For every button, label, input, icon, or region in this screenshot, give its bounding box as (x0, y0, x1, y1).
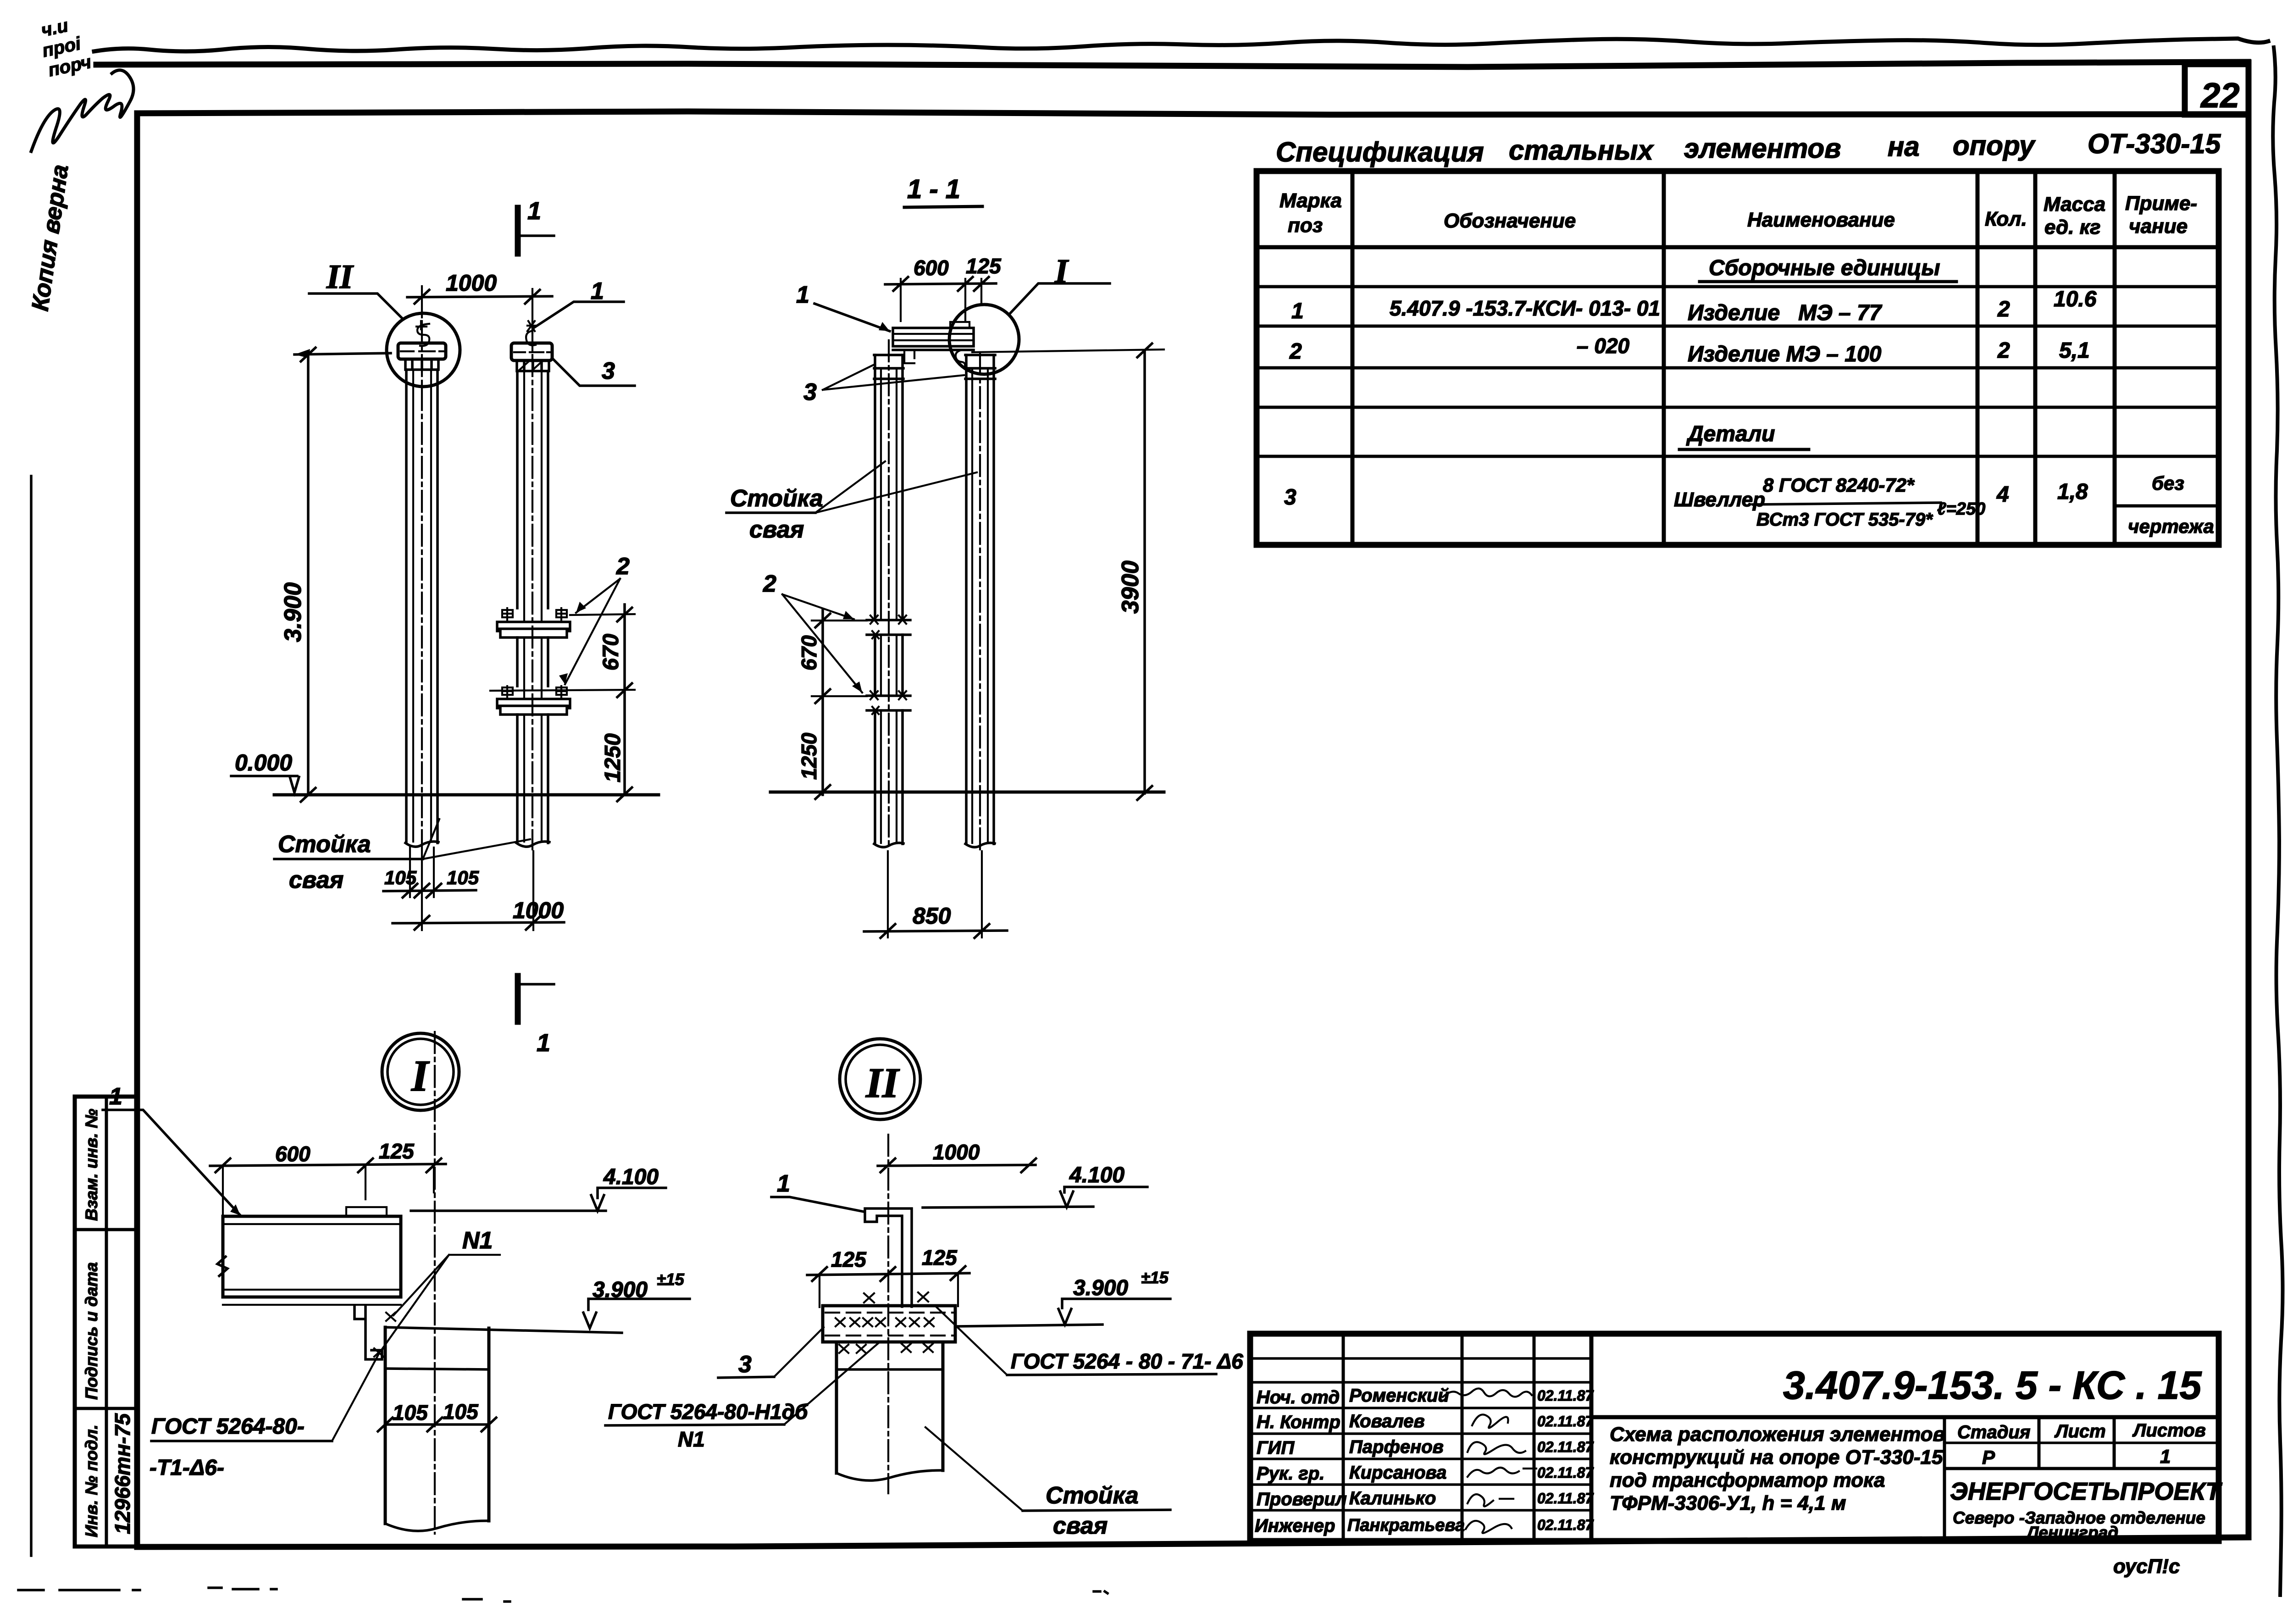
стойка свая underline (274, 858, 423, 860)
torn paper right edge (2273, 47, 2282, 1595)
title block divider sig/date (1533, 1334, 1536, 1541)
pile post 1 cap inner line (401, 350, 445, 352)
svg-text:3: 3 (803, 379, 817, 405)
left margin edge line (30, 476, 33, 1556)
svg-text:конструкций на опоре ОТ-330-15: конструкций на опоре ОТ-330-15 (1610, 1446, 1943, 1469)
section mark 1 bottom (515, 976, 521, 1022)
sect dim 850 ticks (881, 924, 989, 938)
leader 2 arrowheads (559, 602, 586, 684)
svg-text:Стойка: Стойка (278, 831, 371, 858)
title block divider roles/names (1342, 1334, 1345, 1541)
detail II гост Н1дб leader (784, 1343, 879, 1424)
svg-text:3900: 3900 (1117, 560, 1144, 614)
svg-text:1: 1 (2160, 1446, 2171, 1467)
dim 105 105 ticks (403, 884, 441, 898)
detail II стойка underline (1023, 1510, 1170, 1511)
detail II post sides (836, 1342, 943, 1473)
pile post 2 shaft inner lines (524, 371, 542, 842)
pile post 2 shaft edges (517, 371, 548, 843)
svg-text:Стойка: Стойка (730, 485, 823, 512)
title stage col dividers (2039, 1417, 2114, 1469)
svg-text:105: 105 (443, 1400, 479, 1424)
detail II plate weld row below (839, 1344, 933, 1353)
detail II post centerline (887, 1135, 889, 1493)
svg-text:1000: 1000 (446, 270, 497, 296)
detail I beam left break (217, 1257, 227, 1276)
svg-text:ед. кг: ед. кг (2044, 216, 2100, 238)
svg-text:Изделие МЭ – 77: Изделие МЭ – 77 (1688, 301, 1883, 325)
torn paper top edge (94, 39, 2268, 51)
spec table outer box (1257, 171, 2219, 545)
detail II leader 3 underline (718, 1377, 774, 1378)
detail I channel 3 profile (354, 1305, 382, 1359)
pile post 2 cap plate (511, 343, 552, 360)
sect dim 850 extensions (888, 851, 982, 937)
svg-text:22: 22 (2200, 76, 2240, 115)
detail II level 3.900 arrow (1058, 1309, 1071, 1325)
detail II dim 125 ticks (812, 1266, 965, 1281)
section title underline (904, 206, 982, 207)
svg-text:II: II (326, 258, 354, 296)
dim 3900 ticks (301, 348, 316, 802)
detail I post centerline (434, 1032, 436, 1534)
svg-text:02.11.87: 02.11.87 (1537, 1517, 1594, 1533)
detail II dim 1000 line (878, 1165, 1036, 1166)
margin stamp row divider 1 (75, 1228, 137, 1231)
svg-text:Стойка: Стойка (1046, 1482, 1139, 1509)
svg-text:-Т1-Δ6-: -Т1-Δ6- (150, 1456, 224, 1480)
detail II dim 125 extensions (820, 1274, 958, 1307)
clamp 2 body (497, 699, 570, 715)
svg-text:ВСт3 ГОСТ 535-79*: ВСт3 ГОСТ 535-79* (1756, 510, 1933, 530)
detail I weld marks (374, 1313, 395, 1357)
detail II leader 3 line (774, 1327, 824, 1377)
pile post 1 shaft edges (406, 370, 438, 843)
svg-text:Лист: Лист (2054, 1421, 2106, 1441)
dim 1000 bottom line (393, 922, 564, 923)
title block divider left/right (1590, 1334, 1594, 1541)
svg-text:670: 670 (599, 634, 623, 671)
svg-text:±15: ±15 (1141, 1268, 1169, 1287)
svg-text:Обозначение: Обозначение (1444, 210, 1576, 232)
detail I beam top tab (346, 1207, 387, 1216)
svg-text:1: 1 (796, 282, 809, 308)
dim 670-1250 line (623, 604, 626, 795)
svg-text:Листов: Листов (2132, 1420, 2206, 1441)
svg-text:02.11.87: 02.11.87 (1537, 1439, 1594, 1455)
beam inner lines (893, 334, 974, 340)
detail I dim extensions (223, 1165, 434, 1214)
title block row lines (1250, 1358, 1591, 1510)
svg-text:600: 600 (275, 1142, 310, 1166)
sect dim 3900 vertical (1143, 350, 1146, 793)
svg-text:I: I (1054, 253, 1069, 290)
margin stamp row divider 2 (75, 1407, 137, 1410)
clamp 1 extension line (570, 614, 635, 615)
sect post B bottom break (965, 843, 995, 847)
svg-text:II: II (865, 1059, 900, 1106)
svg-text:ОТ-330-15: ОТ-330-15 (2088, 128, 2221, 159)
svg-text:02.11.87: 02.11.87 (1537, 1387, 1594, 1404)
svg-text:2: 2 (763, 571, 776, 597)
detail II гост 71-Δ6 leader (936, 1307, 1007, 1375)
sect dim 3900 ticks (1137, 344, 1152, 800)
svg-text:Изделие МЭ – 100: Изделие МЭ – 100 (1688, 342, 1882, 366)
detail I N1 leader (381, 1255, 500, 1351)
sect post B centerline (979, 353, 981, 849)
spec col divider наименование (1976, 171, 1980, 545)
svg-text:опору: опору (1953, 130, 2036, 161)
svg-text:3: 3 (602, 358, 615, 384)
svg-text:ТФРМ-3306-У1, h = 4,1 м: ТФРМ-3306-У1, h = 4,1 м (1610, 1492, 1846, 1514)
svg-text:4.100: 4.100 (1069, 1163, 1124, 1187)
spec col divider кол (2033, 171, 2038, 545)
svg-text:свая: свая (289, 867, 343, 893)
svg-text:02.11.87: 02.11.87 (1537, 1413, 1594, 1430)
title sig кирсанова (1468, 1468, 1536, 1477)
svg-text:Приме-: Приме- (2125, 192, 2197, 215)
svg-text:105: 105 (393, 1401, 428, 1424)
clamp 1 bolt left (502, 608, 513, 622)
drawing frame left (134, 113, 140, 1547)
svg-text:2: 2 (1997, 338, 2010, 363)
spec header bottom line (1257, 245, 2219, 249)
detail I level 3.900 underline (588, 1299, 690, 1310)
spec row line 5 (1257, 455, 2219, 458)
detail I level 4.100 underline (598, 1188, 666, 1198)
svg-text:Р: Р (1982, 1447, 1995, 1468)
svg-text:8 ГОСТ 8240-72*: 8 ГОСТ 8240-72* (1763, 474, 1915, 496)
spec col divider масса (2113, 171, 2117, 545)
svg-text:стальных: стальных (1509, 135, 1654, 166)
dim 670 ticks (617, 608, 632, 801)
title block code divider (1591, 1415, 2219, 1419)
svg-text:Кирсанова: Кирсанова (1349, 1463, 1446, 1483)
sect dim 3900 extension (972, 349, 1164, 352)
spec примечание cell split (2115, 504, 2219, 508)
pile post 1 bottom break (405, 842, 438, 847)
clamp 2 bolt left (502, 686, 513, 699)
spec table title (1276, 128, 2221, 167)
svg-text:125: 125 (379, 1139, 415, 1163)
svg-text:2: 2 (1997, 297, 2010, 321)
dim 3900 vertical line (307, 355, 310, 795)
title sig роменский (1443, 1388, 1532, 1397)
svg-text:I: I (411, 1051, 430, 1100)
underline детали (1679, 448, 1809, 451)
svg-text:850: 850 (913, 903, 951, 929)
svg-text:без: без (2152, 472, 2184, 494)
sect post A bottom break (874, 843, 903, 847)
detail I level 4.100 arrow (591, 1195, 604, 1211)
dim 1000 bottom extensions (422, 851, 533, 930)
detail I dim ticks (216, 1158, 441, 1172)
clamp 1 body (497, 622, 570, 637)
detail I dim line (210, 1164, 446, 1166)
detail I callout leader (1009, 283, 1110, 315)
margin stamp table column divider (105, 1097, 108, 1546)
svg-text:Наименование: Наименование (1747, 209, 1895, 231)
detail II leader 1 line (771, 1197, 864, 1212)
pile post 1 collar (405, 359, 438, 370)
svg-text:N1: N1 (678, 1427, 705, 1451)
spec row line 3 (1257, 366, 2219, 370)
pile post 1 centerline (421, 321, 423, 849)
svg-text:Детали: Детали (1686, 422, 1775, 446)
svg-text:1000: 1000 (513, 898, 564, 923)
detail II post bottom break (836, 1470, 943, 1480)
sect post A centerline (888, 340, 890, 849)
title sig парфенов (1468, 1442, 1525, 1454)
detail II level 3.900 line (957, 1325, 1102, 1326)
dim 1000 top extension from post1 (421, 286, 423, 317)
detail I post dim line (385, 1423, 489, 1426)
svg-text:Стадия: Стадия (1957, 1422, 2030, 1442)
detail I level 3.900 arrow (583, 1313, 596, 1328)
leader 2 lines (565, 579, 620, 684)
svg-text:1: 1 (527, 197, 541, 225)
svg-text:3: 3 (1284, 485, 1296, 510)
svg-text:Ленинград: Ленинград (2026, 1523, 2118, 1542)
pile post 2 bottom break (516, 842, 549, 847)
verification signature (31, 70, 133, 151)
svg-text:ГИП: ГИП (1257, 1438, 1295, 1458)
sect dim 850 line (864, 931, 1007, 931)
svg-text:3.900: 3.900 (1073, 1276, 1128, 1300)
svg-text:Калинько: Калинько (1349, 1488, 1436, 1508)
svg-text:±15: ±15 (657, 1270, 685, 1289)
detail II гост Н1дб underline (605, 1424, 784, 1425)
bottom small specks (463, 1591, 1108, 1602)
svg-text:600: 600 (914, 256, 949, 280)
svg-text:1250: 1250 (601, 733, 625, 782)
svg-text:Проверил: Проверил (1257, 1489, 1347, 1509)
dim 1000 bottom ticks (415, 916, 541, 930)
torn corner notes top-left (36, 12, 93, 81)
svg-text:Взам. инв. №: Взам. инв. № (82, 1109, 101, 1221)
leader 3 line (553, 359, 635, 386)
title sig калинько (1468, 1494, 1513, 1506)
svg-text:1: 1 (109, 1083, 122, 1110)
underline сборочные единицы (1700, 280, 1956, 283)
detail II top plate (823, 1306, 955, 1342)
svg-text:125: 125 (922, 1246, 958, 1269)
стойка свая leaders (423, 819, 530, 859)
level 0.000 underline (231, 775, 297, 777)
level 0.000 arrow (290, 777, 299, 793)
detail I level 4.100 line (411, 1209, 606, 1212)
sect post A shaft edges (875, 355, 903, 844)
sect dim ticks left (815, 614, 830, 799)
detail II post inner line (836, 1368, 943, 1371)
svg-text:свая: свая (749, 516, 804, 543)
svg-text:Роменский: Роменский (1349, 1386, 1449, 1406)
pile post 1 shaft inner lines (413, 370, 431, 842)
beam top tab (950, 322, 969, 328)
bracket 3 left (904, 350, 914, 363)
sect ground line (770, 791, 1164, 794)
clamp 2 extension line (490, 690, 635, 691)
pile post 2 collar hatch (519, 361, 542, 371)
svg-text:ЭНЕРГОСЕТЬПРОЕКТ: ЭНЕРГОСЕТЬПРОЕКТ (1950, 1478, 2222, 1505)
svg-text:Инженер: Инженер (1255, 1516, 1335, 1536)
sect dim 670-1250 vertical (821, 610, 824, 795)
spec row line 4 (1257, 406, 2219, 409)
margin stamp table box (75, 1097, 137, 1546)
svg-text:1 - 1: 1 - 1 (907, 174, 960, 204)
svg-text:1: 1 (1291, 299, 1304, 323)
svg-text:чание: чание (2129, 215, 2188, 238)
detail I post bottom break (385, 1521, 489, 1531)
detail II dim 125 line (807, 1273, 969, 1275)
title stage table divider (1943, 1417, 1946, 1541)
title sig панкратьева (1466, 1521, 1512, 1533)
svg-text:Панкратьева: Панкратьева (1347, 1516, 1465, 1535)
detail II level 4.100 underline (1064, 1187, 1147, 1192)
svg-text:10.6: 10.6 (2054, 287, 2097, 311)
svg-text:Н. Контр: Н. Контр (1257, 1412, 1340, 1432)
svg-text:1250: 1250 (797, 732, 821, 780)
svg-text:3.900: 3.900 (280, 582, 306, 642)
svg-text:3: 3 (738, 1351, 752, 1378)
svg-text:Кол.: Кол. (1985, 208, 2027, 230)
svg-text:5,1: 5,1 (2059, 338, 2090, 363)
detail II callout leader (309, 294, 403, 319)
svg-text:2: 2 (616, 553, 630, 580)
sect post A clamp marks upper (867, 620, 910, 635)
svg-text:105: 105 (384, 867, 417, 888)
beam МЭ-77 top member (893, 328, 974, 346)
svg-text:3.407.9-153. 5 - КС . 15: 3.407.9-153. 5 - КС . 15 (1783, 1363, 2202, 1408)
detail I post top / level line 3900 (385, 1327, 622, 1333)
svg-text:4.100: 4.100 (603, 1165, 659, 1189)
svg-text:0.000: 0.000 (235, 750, 292, 776)
detail I post dim ticks (378, 1418, 496, 1431)
clamp 2 bolt right (556, 686, 567, 699)
pile post 2 cap inner line (514, 351, 552, 353)
sect post B head lines (965, 355, 995, 379)
row3 fraction bar (1753, 503, 1941, 504)
svg-text:Ноч. отд: Ноч. отд (1257, 1387, 1340, 1408)
pile post 2 centerline (532, 321, 533, 849)
sheet number box (2185, 64, 2249, 115)
section mark 1 top (515, 208, 521, 254)
detail II plate inner lines (825, 1313, 953, 1336)
dim 1000 top line (407, 296, 552, 297)
svg-text:1,8: 1,8 (2057, 480, 2088, 504)
detail I leader 1 line (103, 1110, 240, 1215)
spec row line 1 (1257, 285, 2219, 288)
detail I beam inner lines (223, 1224, 401, 1305)
detail II dim 1000 ticks (881, 1158, 1036, 1172)
bracket 3 right (956, 350, 965, 366)
svg-text:1: 1 (777, 1170, 790, 1197)
стойка свая underline (section) (726, 511, 815, 514)
detail I callout circle (949, 305, 1019, 374)
title stage header row line (1944, 1441, 2219, 1444)
svg-text:поз: поз (1288, 214, 1323, 237)
svg-text:Парфенов: Парфенов (1349, 1437, 1444, 1457)
svg-text:– 020: – 020 (1577, 334, 1630, 358)
svg-text:5.407.9 -153.7-КСИ- 013- 01: 5.407.9 -153.7-КСИ- 013- 01 (1390, 296, 1660, 320)
sect post A head lines (874, 355, 903, 379)
clamp 1 bolt right (556, 608, 567, 622)
svg-text:чертежа: чертежа (2128, 515, 2214, 537)
svg-text:Рук. гр.: Рук. гр. (1257, 1463, 1324, 1484)
svg-text:ГОСТ 5264-80-: ГОСТ 5264-80- (151, 1414, 305, 1439)
sect dim 600/125 line (885, 283, 996, 284)
detail II plate weld row inside (836, 1318, 934, 1326)
post 2 top leader mark (526, 321, 536, 345)
pile post 1 cap plate (398, 343, 446, 359)
detail II level 3.900 underline (1062, 1299, 1170, 1308)
detail I double circle (382, 1033, 459, 1110)
drawing frame bottom (137, 1537, 2249, 1547)
sect dim 600 extension (901, 279, 981, 321)
sect dim extensions left (812, 621, 867, 696)
svg-text:Схема расположения элементов: Схема расположения элементов (1610, 1423, 1945, 1446)
стойка свая leaders (section) (815, 461, 977, 513)
detail II стойка leader (925, 1427, 1023, 1511)
svg-text:Сборочные единицы: Сборочные единицы (1709, 256, 1940, 280)
sect post A clamp marks lower (867, 696, 910, 710)
bottom margin dashes (18, 1588, 277, 1590)
detail I beam body (223, 1216, 401, 1297)
dim 1000 top ticks (415, 290, 540, 304)
dim 3900 top arrow (294, 349, 310, 358)
dim 1000 top extension from post2 (532, 289, 533, 333)
drawing frame top (137, 111, 2249, 115)
dim 105 105 extensions (410, 848, 434, 897)
svg-text:670: 670 (797, 635, 821, 671)
sect dim ticks (893, 277, 989, 291)
svg-text:Швеллер: Швеллер (1674, 488, 1765, 511)
title stage value row line (1944, 1467, 2219, 1470)
ground line (274, 793, 659, 797)
svg-text:ГОСТ 5264 - 80 - 71- Δ6: ГОСТ 5264 - 80 - 71- Δ6 (1011, 1349, 1243, 1373)
detail II double circle (840, 1039, 920, 1120)
svg-text:1: 1 (537, 1029, 550, 1057)
svg-text:Инв. № подл.: Инв. № подл. (82, 1424, 101, 1537)
svg-text:Марка: Марка (1279, 189, 1342, 212)
detail II level 4.100 line (923, 1207, 1093, 1208)
leader 1 line (533, 302, 624, 328)
sect post B shaft edges (966, 355, 994, 844)
spec col divider марка (1351, 171, 1355, 545)
sect post B inner lines (972, 368, 988, 843)
svg-text:элементов: элементов (1684, 133, 1841, 164)
svg-text:N1: N1 (462, 1227, 493, 1254)
detail I гост underline (151, 1440, 332, 1442)
title block divider names/sig (1461, 1334, 1464, 1541)
svg-text:02.11.87: 02.11.87 (1537, 1464, 1594, 1481)
svg-text:105: 105 (447, 867, 479, 888)
spec col divider обозначение (1662, 171, 1666, 545)
svg-text:Ковалев: Ковалев (1349, 1411, 1425, 1431)
spec row line 2 (1257, 325, 2219, 328)
detail I гост leader (332, 1354, 379, 1441)
title block outer box (1250, 1334, 2219, 1541)
svg-text:12966тн-75: 12966тн-75 (111, 1413, 134, 1534)
svg-text:Масса: Масса (2044, 193, 2105, 216)
svg-text:02.11.87: 02.11.87 (1537, 1490, 1594, 1507)
svg-text:свая: свая (1053, 1513, 1108, 1539)
svg-text:2: 2 (1289, 339, 1302, 364)
sect post A inner lines (881, 368, 897, 843)
dim 3900 top extension (294, 353, 391, 355)
svg-text:на: на (1888, 131, 1920, 162)
post 1 top weld squiggle (416, 321, 429, 346)
